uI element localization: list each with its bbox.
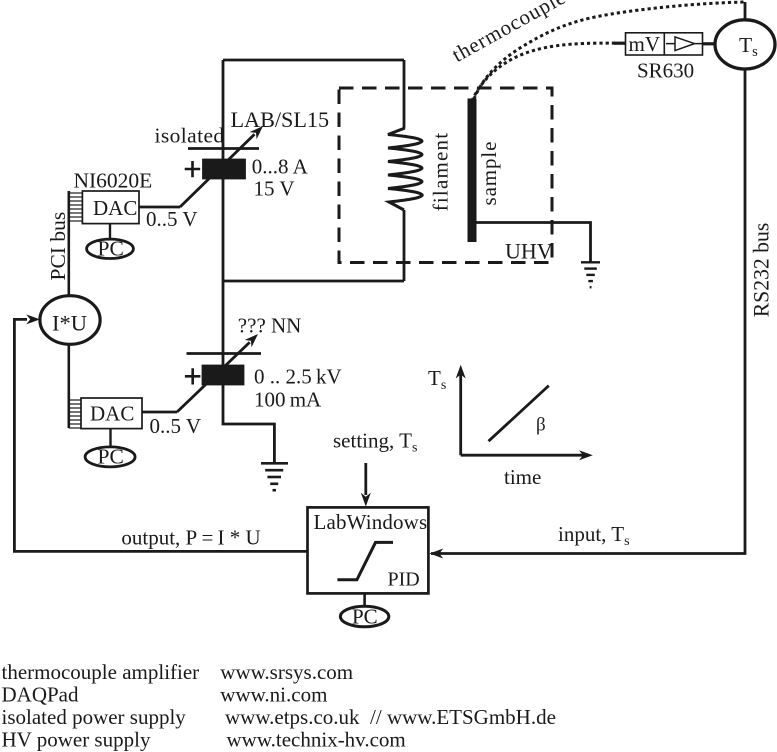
svg-text:I*U: I*U bbox=[52, 311, 87, 336]
svg-text:PC: PC bbox=[98, 445, 124, 469]
svg-text:www.etps.co.uk // www.ETSGmbH: www.etps.co.uk // www.ETSGmbH.de bbox=[225, 705, 556, 729]
power supply U2 body (HV ??? NN) bbox=[203, 366, 243, 384]
svg-text:time: time bbox=[504, 465, 541, 489]
svg-text:DAC: DAC bbox=[93, 196, 137, 220]
wire: DAC2 to PC2 bbox=[109, 429, 111, 447]
wire: amplifier to Ts bbox=[703, 42, 716, 45]
wire: PCI bus lower segment bbox=[68, 344, 71, 428]
PC3 ellipse bbox=[340, 606, 388, 627]
I*U multiplier circle bbox=[40, 296, 100, 345]
UHV chamber dashed box bbox=[339, 88, 552, 263]
Ts display circle bbox=[715, 20, 775, 69]
svg-text:0 .. 2.5 kV: 0 .. 2.5 kV bbox=[254, 365, 342, 389]
power supply U1 body (LAB/SL15) bbox=[204, 160, 245, 178]
svg-text:HV power supply: HV power supply bbox=[2, 728, 151, 752]
wire: top corner into Ts bbox=[744, 2, 747, 20]
svg-text:isolated power supply: isolated power supply bbox=[2, 705, 187, 729]
svg-text:www.ni.com: www.ni.com bbox=[220, 683, 327, 707]
svg-text:0..5 V: 0..5 V bbox=[150, 414, 202, 438]
thermocouple wire upper (dotted) bbox=[474, 2, 745, 99]
svg-text:thermocouple amplifier: thermocouple amplifier bbox=[2, 660, 200, 684]
svg-text:PC: PC bbox=[98, 237, 124, 261]
isolation bar: supply 1 bbox=[188, 147, 259, 150]
control arrow: supply 1 variable bbox=[180, 134, 255, 207]
wire: RS232 bus vertical + input line bbox=[431, 69, 745, 554]
svg-text:input, Ts: input, Ts bbox=[558, 522, 630, 549]
svg-text:0...8 A: 0...8 A bbox=[252, 155, 309, 179]
svg-text:isolated: isolated bbox=[155, 124, 225, 148]
ramp graph y-axis bbox=[459, 373, 462, 455]
plus label supply 1 (drawn) bbox=[185, 161, 201, 177]
svg-text:sample: sample bbox=[477, 141, 501, 206]
ground: HV supply earth bbox=[261, 463, 288, 490]
svg-text:SR630: SR630 bbox=[637, 59, 694, 83]
bus hatch: DAC2 connector bbox=[69, 400, 81, 428]
svg-text:PID: PID bbox=[388, 569, 420, 591]
wire: PCI bus upper segment bbox=[68, 191, 71, 295]
PC1 ellipse bbox=[87, 239, 134, 258]
DAC2 box bbox=[81, 398, 142, 429]
ramp graph x-axis bbox=[461, 454, 584, 457]
wire: heater loop right edge upper bbox=[403, 60, 406, 128]
wire: sample to ground bbox=[477, 223, 591, 263]
svg-text:setting, Ts: setting, Ts bbox=[333, 429, 417, 456]
arrowhead: input into PID box bbox=[430, 549, 444, 559]
control arrow: supply 2 variable bbox=[177, 342, 250, 412]
setting arrow into PID box bbox=[364, 463, 367, 495]
svg-text:LAB/SL15: LAB/SL15 bbox=[231, 107, 330, 132]
bus hatch: DAC1 connector bbox=[69, 193, 83, 221]
wire: heater loop top edge bbox=[223, 59, 404, 62]
svg-text:DAC: DAC bbox=[90, 402, 134, 426]
isolation bar: supply 2 bbox=[187, 352, 262, 355]
svg-text:www.srsys.com: www.srsys.com bbox=[220, 660, 353, 684]
svg-text:output, P = I * U: output, P = I * U bbox=[121, 526, 260, 550]
thermocouple amplifier U3 box (mV) bbox=[626, 33, 703, 55]
svg-text:100 mA: 100 mA bbox=[254, 388, 322, 412]
PC2 ellipse bbox=[85, 447, 135, 467]
PID ramp icon bbox=[337, 542, 393, 579]
svg-text:mV: mV bbox=[629, 32, 661, 56]
wire: PID box to PC3 bbox=[363, 593, 366, 606]
arrowhead: feedback into I*U bbox=[26, 314, 40, 324]
wire: heater loop right edge lower bbox=[403, 210, 406, 281]
sample bar bbox=[468, 99, 477, 243]
svg-text:RS232 bus: RS232 bus bbox=[750, 223, 774, 318]
wire: DAC1 to PC1 bbox=[109, 224, 111, 240]
svg-text:PC: PC bbox=[352, 605, 378, 629]
wire: DAC1 output to supply 1 bbox=[139, 206, 180, 209]
wire: heater loop bottom edge bbox=[223, 280, 404, 283]
svg-text:??? NN: ??? NN bbox=[238, 314, 302, 338]
svg-text:PCI bus: PCI bus bbox=[46, 212, 70, 281]
svg-text:LabWindows: LabWindows bbox=[314, 510, 428, 534]
LabWindows PID box bbox=[308, 507, 429, 593]
wire: DAC2 output to supply 2 bbox=[142, 411, 177, 414]
svg-text:β: β bbox=[536, 415, 546, 436]
ground: sample earth bbox=[581, 262, 600, 287]
filament coil bbox=[388, 128, 422, 210]
svg-text:www.technix-hv.com: www.technix-hv.com bbox=[227, 728, 406, 752]
svg-text:15 V: 15 V bbox=[254, 177, 295, 201]
thermocouple wire lower (dotted) bbox=[472, 43, 617, 101]
op-amp triangle inside amplifier bbox=[675, 37, 695, 51]
plus label supply 2 (drawn) bbox=[185, 368, 201, 384]
svg-text:UHV: UHV bbox=[505, 239, 553, 264]
DAC1 box bbox=[82, 191, 139, 224]
svg-text:0..5 V: 0..5 V bbox=[146, 207, 198, 231]
svg-text:NI6020E: NI6020E bbox=[74, 169, 153, 193]
svg-text:DAQPad: DAQPad bbox=[2, 683, 79, 707]
svg-text:filament: filament bbox=[429, 132, 453, 212]
wire: output line + feedback vertical bbox=[14, 319, 307, 551]
wire: thermocouple to mV amplifier bbox=[614, 42, 626, 45]
wire: main supply bus vertical bbox=[223, 60, 274, 463]
ramp graph heating line bbox=[489, 386, 549, 442]
